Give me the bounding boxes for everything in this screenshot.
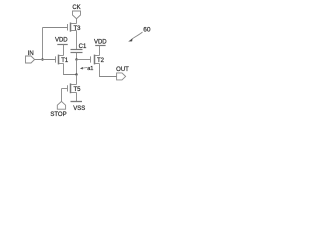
terminal STOP bbox=[57, 101, 65, 109]
terminal OUT bbox=[117, 73, 126, 80]
svg-text:VDD: VDD bbox=[94, 39, 107, 45]
power rail VDD left bbox=[57, 44, 67, 46]
power rail VSS bbox=[71, 101, 83, 103]
wire C1 bottom to node a1 bbox=[76, 53, 78, 60]
wire CK stem bbox=[76, 19, 78, 24]
wire node a1 to T2 gate bbox=[77, 59, 91, 61]
svg-text:VSS: VSS bbox=[73, 106, 85, 112]
junction at T1 source join bbox=[75, 73, 77, 75]
wire STOP to T5 gate bbox=[61, 89, 63, 102]
wire VDD-R to T2 drain bbox=[99, 46, 101, 56]
svg-text:T1: T1 bbox=[61, 58, 69, 64]
wire node down to T5 drain bbox=[76, 75, 78, 85]
capacitor C1 bbox=[71, 50, 83, 53]
wire T1 source down to node bbox=[64, 64, 77, 75]
wire IN to T1 gate bbox=[35, 59, 56, 61]
wire node a1 down bbox=[76, 60, 78, 75]
label a1 with leader arrow bbox=[80, 66, 93, 72]
junction on IN wire bbox=[41, 58, 43, 60]
wire VDD-L to T1 drain bbox=[63, 45, 65, 56]
svg-text:T5: T5 bbox=[74, 87, 82, 93]
transistor T1 bbox=[56, 55, 69, 65]
power rail VDD right bbox=[95, 45, 105, 47]
svg-text:OUT: OUT bbox=[116, 67, 129, 73]
junction node a1 bbox=[75, 58, 77, 60]
svg-text:C1: C1 bbox=[79, 44, 87, 50]
transistor T2 bbox=[91, 55, 105, 65]
svg-text:60: 60 bbox=[143, 26, 151, 33]
svg-text:T2: T2 bbox=[97, 58, 105, 64]
terminal CK bbox=[73, 11, 81, 19]
svg-text:STOP: STOP bbox=[50, 112, 66, 118]
transistor T3 bbox=[43, 23, 82, 33]
terminal IN bbox=[26, 56, 35, 63]
wire T2 source to OUT bbox=[100, 64, 117, 77]
wire T3 source to C1 top bbox=[76, 31, 78, 50]
wire T5 source to VSS bbox=[76, 93, 78, 102]
transistor T5 bbox=[62, 83, 82, 93]
svg-text:a1: a1 bbox=[87, 66, 93, 72]
svg-text:VDD: VDD bbox=[55, 37, 68, 43]
wire from T3 gate down to IN node bbox=[42, 28, 44, 60]
svg-text:T3: T3 bbox=[74, 26, 82, 32]
svg-text:CK: CK bbox=[72, 5, 80, 11]
figure callout 60 bbox=[128, 26, 151, 41]
